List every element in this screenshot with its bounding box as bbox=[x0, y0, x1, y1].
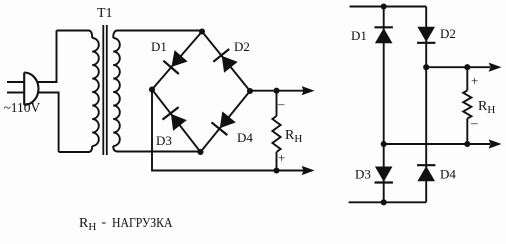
junction RH right top bbox=[464, 64, 470, 70]
wire bridge edge top-left bbox=[152, 32, 202, 90]
svg-text:D3: D3 bbox=[156, 133, 172, 148]
wire left rail bbox=[383, 7, 385, 203]
wire bridge edge bottom-right bbox=[201, 91, 251, 152]
node bridge left bbox=[149, 86, 155, 92]
wire primary bottom bbox=[59, 151, 89, 153]
svg-text:+: + bbox=[471, 73, 478, 88]
diode D2 bbox=[213, 49, 237, 72]
wire bridge edge bottom-left bbox=[152, 90, 201, 153]
diode D4 bbox=[212, 112, 236, 135]
diode D3 bbox=[163, 107, 187, 130]
junction RH right bottom bbox=[464, 141, 470, 147]
wire minus output right bbox=[384, 143, 490, 145]
wire plug upper to top bbox=[37, 31, 56, 83]
resistor RH left bbox=[272, 116, 280, 152]
wire RH bottom lead bbox=[276, 152, 278, 171]
node bridge bottom bbox=[197, 149, 203, 155]
wire top rail right circuit bbox=[350, 6, 427, 8]
arrow plus output right bbox=[490, 64, 500, 71]
svg-text:D4: D4 bbox=[237, 130, 253, 145]
wire plug lower to bottom bbox=[37, 93, 59, 153]
junction plus node bbox=[423, 64, 429, 70]
svg-text:-: - bbox=[102, 215, 107, 230]
wire secondary top to bridge top bbox=[118, 30, 203, 32]
junction top rail bbox=[381, 3, 387, 9]
resistor RH right bbox=[463, 91, 471, 119]
wire RH top lead bbox=[276, 91, 278, 116]
secondary coil bbox=[113, 38, 120, 146]
wire RH right top lead bbox=[466, 67, 468, 90]
node bridge top bbox=[199, 28, 205, 34]
svg-text:~110V: ~110V bbox=[4, 100, 41, 115]
node bridge right bbox=[247, 88, 253, 94]
diode D2 right bbox=[417, 27, 435, 43]
arrow minus output bbox=[303, 87, 313, 94]
primary coil bbox=[92, 38, 99, 146]
svg-text:–: – bbox=[470, 115, 478, 130]
wire minus rail bbox=[250, 90, 304, 92]
svg-text:D4: D4 bbox=[440, 167, 456, 182]
transformer T1 core bbox=[103, 25, 107, 155]
transformer T1 primary winding bbox=[89, 31, 93, 39]
svg-text:D2: D2 bbox=[440, 26, 456, 41]
svg-text:D1: D1 bbox=[151, 39, 167, 54]
svg-text:D1: D1 bbox=[351, 28, 367, 43]
wire bottom rail right circuit bbox=[349, 201, 427, 203]
wire plus output right bbox=[426, 66, 490, 68]
junction minus node bbox=[381, 141, 387, 147]
wire right rail bbox=[425, 7, 427, 203]
wire primary top bbox=[57, 30, 89, 32]
diode D3 right bbox=[375, 167, 393, 183]
wire RH right bottom lead bbox=[466, 119, 468, 145]
arrow plus output bbox=[303, 167, 313, 174]
diode D1 right bbox=[375, 27, 393, 43]
junction bottom rail bbox=[381, 199, 387, 205]
svg-text:+: + bbox=[278, 150, 285, 165]
wire bridge edge top-right bbox=[202, 32, 250, 92]
svg-text:D3: D3 bbox=[355, 167, 371, 182]
junction RH bottom bbox=[273, 167, 279, 173]
junction RH top bbox=[273, 88, 279, 94]
diode D1 bbox=[163, 51, 187, 74]
svg-text:D2: D2 bbox=[234, 39, 250, 54]
diode D4 right bbox=[417, 165, 435, 181]
transformer T1 secondary winding bbox=[113, 31, 117, 39]
wire secondary bottom to bridge bottom bbox=[118, 151, 201, 153]
svg-text:НАГРУЗКА: НАГРУЗКА bbox=[112, 216, 173, 231]
arrow minus output right bbox=[490, 140, 500, 147]
svg-text:–: – bbox=[277, 96, 285, 111]
wire left vertex down and plus rail bbox=[152, 90, 304, 171]
svg-text:T1: T1 bbox=[97, 6, 113, 21]
AC plug P1 bbox=[7, 73, 39, 105]
